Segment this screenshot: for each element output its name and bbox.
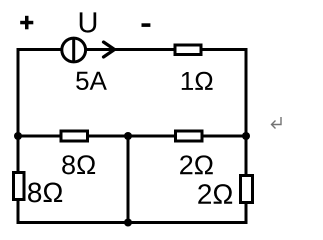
wire middle vertical — [127, 136, 130, 223]
label 8 ohm left — [28, 182, 62, 202]
current source 5A — [62, 38, 86, 62]
node junction left-middle — [14, 132, 22, 140]
wire right branch — [245, 48, 248, 224]
wire middle horizontal — [17, 135, 248, 138]
label minus — [142, 23, 151, 27]
resistor 2ohm (middle horizontal) — [176, 131, 203, 141]
wire bottom — [17, 221, 248, 224]
wire top (node +U- to 1ohm) — [17, 48, 248, 51]
resistor 8ohm (left vertical) — [14, 173, 25, 200]
return mark (paragraph glyph) — [272, 117, 282, 129]
label U — [80, 12, 96, 32]
resistor 8ohm (middle horizontal) — [61, 131, 88, 141]
node junction center-middle — [124, 132, 132, 140]
label 8 ohm middle — [62, 155, 95, 174]
node junction bottom-center — [124, 219, 132, 227]
wire left branch — [17, 48, 20, 224]
label 2 ohm middle — [180, 155, 213, 174]
label 1 ohm — [182, 72, 213, 90]
label plus — [20, 16, 33, 29]
current direction arrow — [104, 42, 115, 57]
label 5A — [76, 72, 107, 90]
resistor R1 1ohm (top) — [175, 45, 201, 55]
node junction right-middle — [242, 132, 250, 140]
resistor 2ohm (right vertical) — [241, 176, 253, 203]
label 2 ohm right — [198, 184, 232, 204]
